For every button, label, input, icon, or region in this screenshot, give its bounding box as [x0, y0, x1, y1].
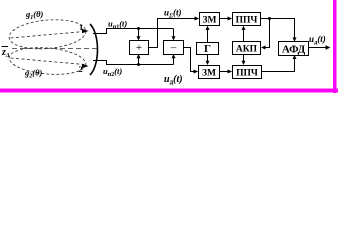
- svg-text:АКП: АКП: [236, 45, 258, 55]
- svg-text:–: –: [170, 42, 177, 54]
- svg-text:uд(t): uд(t): [164, 74, 183, 86]
- svg-text:ППЧ: ППЧ: [236, 69, 258, 79]
- svg-text:ЗМ: ЗМ: [203, 16, 217, 26]
- svg-text:+: +: [136, 42, 142, 54]
- svg-text:1: 1: [79, 22, 83, 32]
- svg-text:2: 2: [79, 64, 83, 74]
- svg-text:Г: Г: [204, 43, 211, 55]
- svg-text:ППЧ: ППЧ: [236, 16, 258, 26]
- svg-text:ЗМ: ЗМ: [202, 69, 216, 79]
- svg-text:АФД: АФД: [282, 44, 306, 56]
